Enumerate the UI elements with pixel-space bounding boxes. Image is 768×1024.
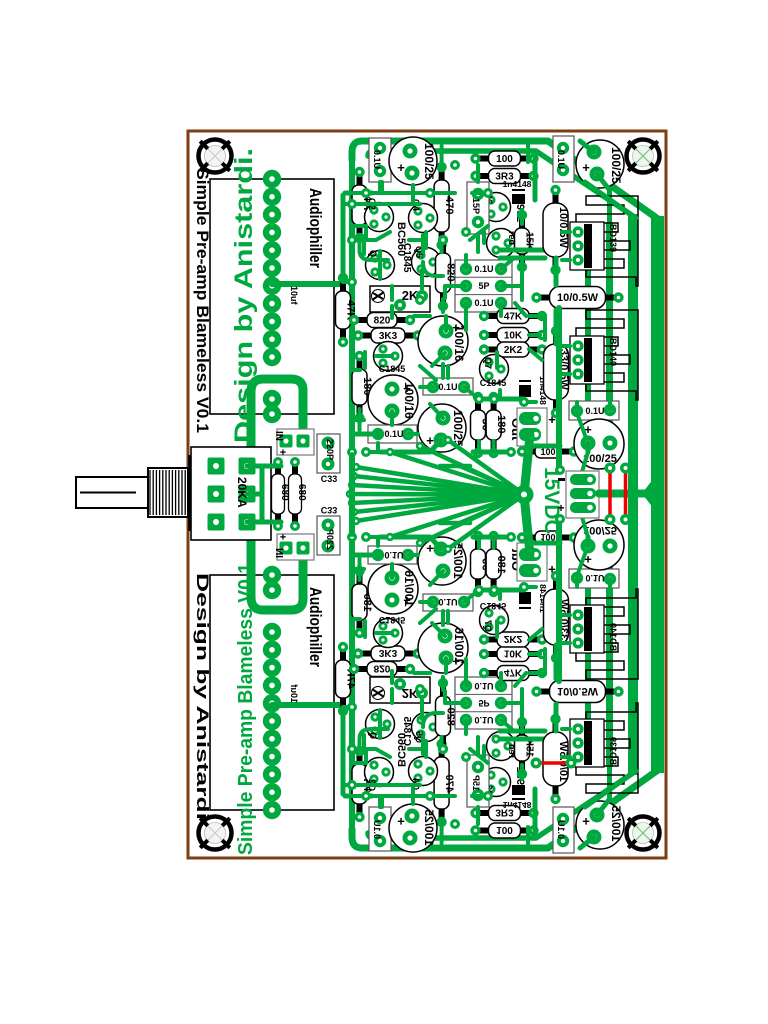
svg-text:10K: 10K (504, 331, 523, 342)
svg-text:15P: 15P (471, 198, 481, 214)
svg-text:5P: 5P (478, 281, 489, 291)
svg-text:820: 820 (374, 316, 391, 327)
svg-text:220P: 220P (325, 439, 335, 460)
svg-text:Q7: Q7 (483, 357, 493, 369)
svg-text:0.1U: 0.1U (384, 429, 403, 439)
svg-text:0.1U: 0.1U (585, 406, 604, 416)
svg-text:Design by Anistardi.: Design by Anistardi. (230, 148, 258, 443)
svg-text:100/25: 100/25 (609, 147, 623, 184)
svg-text:10/0.5W: 10/0.5W (557, 207, 569, 249)
svg-text:0.1U: 0.1U (474, 264, 493, 274)
svg-text:C1845: C1845 (379, 364, 406, 374)
svg-text:IN: IN (273, 431, 284, 441)
svg-text:Simple Pre-amp Blameless V0.1: Simple Pre-amp Blameless V0.1 (235, 563, 257, 855)
svg-text:C33: C33 (321, 474, 338, 484)
svg-text:10/0.5W: 10/0.5W (557, 292, 599, 304)
svg-text:100/16: 100/16 (452, 325, 466, 362)
svg-text:100: 100 (540, 447, 555, 457)
svg-text:1n4148: 1n4148 (503, 179, 532, 189)
svg-text:470: 470 (443, 196, 455, 214)
svg-text:+: + (397, 160, 405, 175)
svg-text:Audiophiller: Audiophiller (306, 188, 325, 268)
svg-text:10uf: 10uf (289, 286, 299, 306)
svg-text:Design by Anistardi: Design by Anistardi (193, 573, 212, 820)
svg-text:100/16: 100/16 (402, 382, 416, 419)
svg-text:+: + (557, 501, 564, 515)
svg-text:C1845: C1845 (401, 243, 412, 273)
svg-text:180: 180 (495, 415, 507, 433)
svg-text:Audiophiller: Audiophiller (306, 587, 325, 667)
svg-text:+: + (280, 447, 286, 459)
svg-text:BD139: BD139 (608, 224, 618, 252)
svg-text:0.1U: 0.1U (474, 298, 493, 308)
svg-text:47K: 47K (504, 312, 523, 323)
svg-text:Simple Pre-amp Blameless V0.1: Simple Pre-amp Blameless V0.1 (193, 168, 212, 433)
svg-text:2K2: 2K2 (504, 345, 523, 356)
svg-text:680: 680 (296, 484, 307, 501)
svg-text:0.1U: 0.1U (556, 150, 566, 169)
svg-text:BD140: BD140 (608, 338, 618, 366)
svg-text:3K3: 3K3 (379, 331, 398, 342)
svg-text:0.1U: 0.1U (372, 150, 382, 169)
svg-text:0.1U: 0.1U (438, 382, 457, 392)
svg-text:C1845: C1845 (480, 378, 507, 388)
svg-text:100: 100 (496, 154, 513, 165)
svg-text:+: + (582, 160, 590, 175)
svg-text:100/25: 100/25 (422, 143, 436, 180)
